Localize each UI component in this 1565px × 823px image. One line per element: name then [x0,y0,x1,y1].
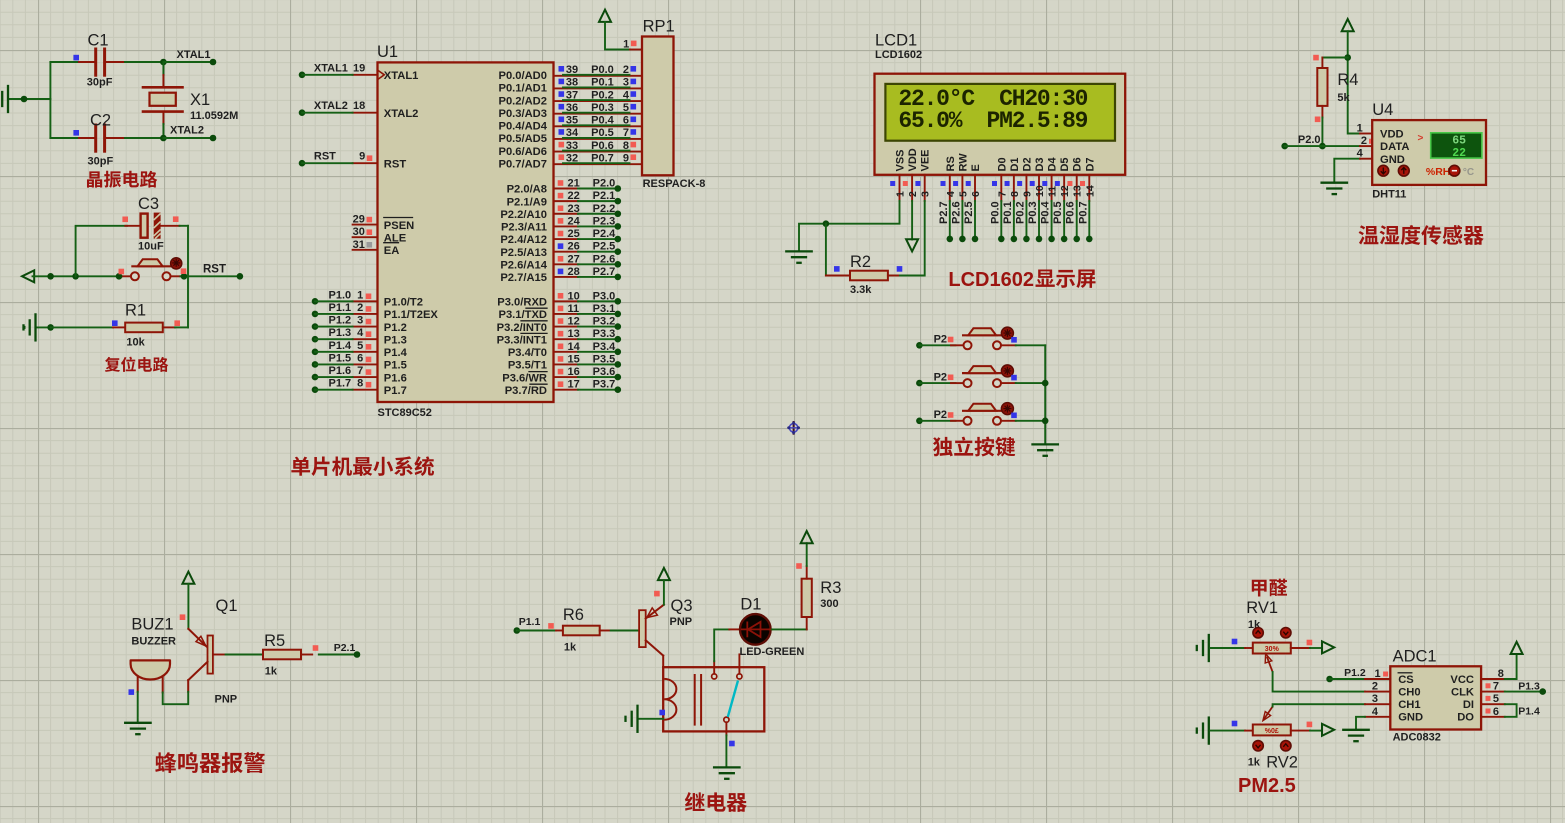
button actuator key 2 [1001,365,1013,377]
svg-text:D5: D5 [1059,157,1071,171]
state square BUZ1 [129,689,135,695]
wire XTAL1 to U1 [299,72,306,79]
DHT11 buttons [1378,165,1389,176]
svg-text:P1.3: P1.3 [1518,681,1540,693]
svg-text:P0.7/AD7: P0.7/AD7 [498,158,547,170]
svg-text:%RH: %RH [1426,166,1451,178]
svg-text:XTAL2: XTAL2 [170,125,204,137]
svg-text:P1.6: P1.6 [384,372,407,384]
power arrow (reset rail, pointing left) [22,270,34,282]
state square LCD pin 10 [1030,181,1035,186]
svg-text:P3.4/T0: P3.4/T0 [508,347,547,359]
wire P0.4 to RP1 [563,124,630,126]
svg-text:R2: R2 [850,253,871,271]
LCD pin 2 stub [911,175,913,201]
svg-text:STC89C52: STC89C52 [378,407,432,419]
wire P3.6 [578,376,618,378]
state square key 3 right [1011,413,1017,419]
svg-text:P1.6: P1.6 [329,365,352,377]
wire P1.5 [312,361,319,368]
state square ADC pin 1 [1383,672,1388,677]
state square RV2 right [1307,722,1313,728]
node P2.2 key terminal [916,342,923,349]
potentiometer RV1 [1245,647,1253,649]
svg-text:P0.5: P0.5 [1052,201,1064,224]
resistor R1 [51,326,113,328]
wire P2.3 [578,225,618,227]
pin 14 P3.4 (U1 right) [554,351,579,353]
wire VDD to power [911,201,913,240]
svg-text:19: 19 [353,62,365,74]
LCD pin 6 stub [974,175,976,201]
svg-text:P0.6/AD6: P0.6/AD6 [498,146,547,158]
svg-text:P3.5: P3.5 [593,353,616,365]
state squares P0.6 [559,142,565,148]
state square RV1 right [1307,640,1313,646]
svg-text:5: 5 [357,340,363,352]
svg-text:RST: RST [314,151,336,163]
LCD pin 3 stub [924,175,926,201]
pin 6 DO (ADC) [1481,716,1505,718]
power arrow right (RV1) [1322,641,1334,653]
svg-text:RV2: RV2 [1266,754,1298,772]
LCD pin 9 stub [1025,175,1027,201]
LCD pin 7 stub [1000,175,1002,201]
svg-text:PSEN: PSEN [384,220,414,232]
wire P0.5 to RP1 [563,137,630,139]
state square DATA pin 2 [1369,139,1374,144]
svg-text:P0.3: P0.3 [1027,201,1039,224]
svg-text:4: 4 [945,191,957,197]
svg-text:30pF: 30pF [88,156,114,168]
svg-text:ADC0832: ADC0832 [1393,732,1441,744]
pin 8 P1.7 (U1 left) [353,389,378,391]
svg-text:P2.0: P2.0 [593,178,616,190]
state square RV1 left [1232,639,1238,645]
svg-text:P1.4: P1.4 [1518,706,1540,718]
svg-text:P3.2: P3.2 [593,316,616,328]
svg-text:23: 23 [568,203,580,215]
state square P1.2 [366,319,372,325]
title reset circuit [105,357,120,372]
wire buzzer left to ground [137,692,139,723]
svg-text:9: 9 [1021,191,1033,197]
button actuator key 1 [1001,327,1013,339]
svg-text:P3.2/INT0: P3.2/INT0 [497,322,547,334]
pin 1 P1.0 (U1 left) [353,300,378,302]
svg-text:30%: 30% [1265,646,1280,653]
node P2.4 key terminal [916,418,923,425]
svg-text:P1.1/T2EX: P1.1/T2EX [384,309,439,321]
junction dot VSS/R2 [823,220,830,227]
potentiometer RV2 [1245,730,1253,732]
wire P3.1 [578,313,618,315]
state square LCD pin 14 [1080,181,1085,186]
svg-text:P2.1: P2.1 [334,642,356,654]
svg-text:27: 27 [568,253,580,265]
pin 27 P2.6 (U1 right) [554,263,579,265]
title buzzer alarm [155,752,176,773]
svg-text:1k: 1k [265,665,278,677]
svg-text:4: 4 [623,89,630,101]
pin 7 P1.6 (U1 left) [353,376,378,378]
state square RST pin 9 [367,155,373,161]
state squares R2 [834,266,840,272]
pin 6 P1.5 (U1 left) [353,363,378,365]
clock input mark XTAL1 [378,70,385,80]
sensor U4 DHT11 body [1372,120,1486,185]
svg-text:XTAL1: XTAL1 [384,70,419,82]
svg-text:P0.1/AD1: P0.1/AD1 [498,83,547,95]
svg-text:LCD1602: LCD1602 [948,269,1034,291]
state square C2 [73,130,79,136]
svg-text:P2.1/A9: P2.1/A9 [507,196,547,208]
svg-text:P2.0/A8: P2.0/A8 [507,184,547,196]
svg-text:10uF: 10uF [138,241,164,253]
svg-text:BUZ1: BUZ1 [131,616,173,634]
state square P3.0 [558,293,564,299]
state square Q1 emitter [180,614,186,620]
svg-text:BUZZER: BUZZER [131,636,176,648]
state square LCD pin 3 [915,181,920,186]
svg-text:P2.0: P2.0 [1298,134,1321,146]
svg-text:D7: D7 [1084,157,1096,171]
svg-text:3: 3 [357,315,363,327]
MCU U1 body [378,62,554,402]
ground (crystal circuit) [9,98,50,100]
svg-text:P0.6: P0.6 [591,140,614,152]
overline TXD INT0 INT1 WR RD [526,307,547,309]
LCD pin 8 stub [1013,175,1015,201]
svg-text:P3.0/RXD: P3.0/RXD [497,297,547,309]
wire DATA to U4 [1322,145,1360,147]
state square LCD pin 5 [953,181,958,186]
state square LCD pin 11 [1042,181,1047,186]
state square P2.2 [558,205,564,211]
svg-text:VDD: VDD [1380,129,1404,141]
svg-text:1: 1 [895,191,907,197]
LCD pin 4 stub [949,175,951,201]
LCD pin 12 stub [1063,175,1065,201]
LCD pin 1 stub [899,175,901,201]
svg-text:2: 2 [1372,681,1378,693]
button actuator key 3 [1001,403,1013,415]
svg-text:8: 8 [1009,191,1021,197]
junction dot R1 left [47,324,54,331]
svg-text:P0.2: P0.2 [1014,201,1026,224]
svg-text:%0£: %0£ [1265,728,1279,735]
svg-text:XTAL2: XTAL2 [384,108,419,120]
buzzer BUZ1 [131,660,170,679]
title relay [685,792,705,811]
svg-text:P2: P2 [934,371,947,383]
pin 38 P0.1 (U1 right) [554,87,643,89]
wire left rail C1-C2 [49,62,51,138]
wire power to Q3 emitter [663,580,665,605]
svg-text:P2.1: P2.1 [593,190,616,202]
svg-text:34: 34 [566,127,579,139]
svg-text:P1.4: P1.4 [384,347,408,359]
title formaldehyde [1252,580,1267,597]
resistor R6 [556,630,563,632]
pin 5 DI (ADC) [1481,703,1505,705]
wire P0.7 to RP1 [563,162,630,164]
svg-text:VCC: VCC [1450,674,1474,686]
wire RV1 to output arrow [1310,647,1322,649]
state square pin 31 [367,242,373,248]
svg-text:P3.0: P3.0 [593,290,616,302]
node XTAL2 (net label + wire + dots) [160,135,167,142]
state square P3.4 [558,344,564,350]
resistor R2 [825,224,827,276]
svg-text:32: 32 [566,152,578,164]
wire power to R4/VDD [1347,31,1349,57]
power arrow (RP1 pin 1) [599,10,611,22]
svg-text:39: 39 [566,64,578,76]
wire keys ground rail [1044,345,1046,444]
svg-text:D4: D4 [1047,157,1059,172]
state square R6 left [548,623,554,629]
state square ADC pin 5 [1486,696,1491,701]
pin 2 P1.1 (U1 left) [353,313,378,315]
wire CH1 [1273,704,1365,706]
svg-text:8: 8 [1498,668,1504,680]
svg-text:P0.0: P0.0 [591,64,614,76]
svg-text:25: 25 [568,228,580,240]
relay contact pins [712,674,717,679]
svg-text:3: 3 [920,191,932,197]
pin 17 P3.7 (U1 right) [554,389,579,391]
wire VSS to ground [799,201,900,251]
svg-text:XTAL1: XTAL1 [177,49,211,61]
junction dots keys rail [1042,380,1049,387]
svg-text:P0.6: P0.6 [1065,201,1077,224]
state squares P0.5 [559,129,565,135]
state square ADC pin 7 [1486,683,1491,688]
svg-text:30pF: 30pF [87,77,113,89]
svg-text:1: 1 [1357,123,1363,135]
svg-text:7: 7 [357,365,363,377]
svg-text:P0.5: P0.5 [591,127,614,139]
state squares P0.2 [559,91,565,97]
svg-text:1: 1 [1374,668,1380,680]
svg-text:7: 7 [996,191,1008,197]
svg-text:R3: R3 [820,579,841,597]
pin 33 P0.6 (U1 right) [554,151,643,153]
state squares P0.7 [559,154,565,160]
svg-text:8: 8 [357,378,363,390]
svg-text:P3.3: P3.3 [593,328,616,340]
capacitor C3 (electrolytic) [125,225,139,227]
state square P1.4 [366,344,372,350]
wire ground to RV1 [1210,647,1245,649]
wire RST to U1 [299,160,306,167]
svg-text:4: 4 [1372,706,1379,718]
state square RV2 left [1232,721,1238,727]
wire P1.0 [312,298,319,305]
state squares P0.0 [559,66,565,72]
state squares P0.1 [559,79,565,85]
svg-text:P1.5: P1.5 [329,352,352,364]
pin 29 (U1 left, no wire) [353,224,378,226]
svg-text:10k: 10k [126,337,145,349]
wire key 2 to ground rail [1016,382,1045,384]
wire D1 to R3 [772,628,807,630]
pin 31 (U1 left, no wire) [353,249,378,251]
svg-text:ADC1: ADC1 [1393,648,1437,666]
state square C1 [73,55,79,61]
state square key 1 right [1011,337,1017,343]
state square LCD pin 4 [941,181,946,186]
power arrow (ADC VCC) [1511,642,1523,654]
wire R4 to DATA [1321,118,1323,147]
pin 5 P1.4 (U1 left) [353,351,378,353]
LCD screen [885,84,1115,141]
wire R5 to P2.1 [319,654,357,656]
svg-text:9: 9 [623,152,629,164]
push button (reset key) [131,272,139,280]
svg-text:VSS: VSS [895,149,907,171]
svg-text:14: 14 [568,341,581,353]
svg-text:P0.7: P0.7 [591,152,614,164]
svg-text:VEE: VEE [920,149,932,171]
svg-text:P1.2: P1.2 [384,322,407,334]
svg-text:18: 18 [353,100,365,112]
svg-text:U1: U1 [377,43,398,61]
relay coil [664,679,676,720]
node P2.0 terminal [1281,143,1288,150]
wire P3.2 [578,326,618,328]
state square P2.0 [558,180,564,186]
svg-text:D1: D1 [1009,157,1021,171]
svg-text:31: 31 [353,239,365,251]
LCD pin 5 stub [961,175,963,201]
state square R5 right [313,645,319,651]
power arrow down (VDD) [906,239,918,251]
wire P1.1 [312,311,319,318]
state square P3.1 [558,306,564,312]
overline PSEN [384,217,413,219]
svg-text:P2.5: P2.5 [963,201,975,224]
svg-text:5k: 5k [1337,92,1350,104]
resistor R5 [263,650,301,660]
junction dot power/R4 [1344,54,1351,61]
wire power to RP1 pin 1 [605,22,630,50]
ground (relay switch) [714,766,739,768]
svg-text:P0.1: P0.1 [591,77,614,89]
svg-text:17: 17 [568,379,580,391]
svg-text:XTAL2: XTAL2 [314,100,348,112]
svg-text:12: 12 [1059,185,1071,197]
state square P2.1 [558,193,564,199]
wire C3 right branch / RST vertical [187,226,189,328]
wire P3.5 [578,363,618,365]
wire R4 top [1322,57,1347,59]
button actuator (reset key) [171,258,182,269]
svg-text:R1: R1 [125,302,146,320]
power arrow (buzzer) [182,572,194,584]
svg-text:C1: C1 [88,32,109,50]
svg-text:4: 4 [1357,148,1364,160]
svg-text:CLK: CLK [1451,686,1474,698]
svg-text:30: 30 [353,226,365,238]
pin 28 P2.7 (U1 right) [554,276,579,278]
pin 19 XTAL1 (U1 left) [353,74,378,76]
wire P2.1 [578,200,618,202]
wire relay common to ground [725,722,727,735]
wire XTAL2 to U1 [299,109,306,116]
wire DI-DO bracket (P1.4) [1505,704,1517,717]
state square P3.7 [558,381,564,387]
svg-text:P1.2: P1.2 [329,315,352,327]
state square P1.6 [366,369,372,375]
svg-text:5: 5 [957,191,969,197]
svg-text:CH0: CH0 [1398,686,1420,698]
wire P3.7 [578,389,618,391]
state square R4 top [1313,55,1319,61]
svg-text:13: 13 [568,328,580,340]
svg-text:P1.4: P1.4 [329,340,353,352]
wire D0 (P0.0) [1000,201,1002,239]
pin 1 CS (ADC) [1365,678,1390,680]
ground (DHT11) [1322,182,1347,184]
svg-text:P1.0: P1.0 [329,289,352,301]
wire power to Q1 emitter [187,584,189,629]
wire key 1 to ground rail [1016,344,1045,346]
svg-text:P2.2/A10: P2.2/A10 [500,209,547,221]
svg-text:GND: GND [1398,712,1423,724]
svg-text:5: 5 [1493,693,1499,705]
svg-text:28: 28 [568,266,580,278]
svg-text:P2.7: P2.7 [938,201,950,224]
wire CLK to P1.3 [1505,691,1543,693]
pin 23 P2.2 (U1 right) [554,213,579,215]
svg-text:P3.1/TXD: P3.1/TXD [499,309,548,321]
state square P2.6 [558,256,564,262]
pin 7 CLK (ADC) [1481,691,1505,693]
pin 32 P0.7 (U1 right) [554,163,643,165]
svg-text:P0.3/AD3: P0.3/AD3 [498,108,547,120]
svg-text:DO: DO [1457,712,1474,724]
svg-text:P2.5: P2.5 [593,241,616,253]
pin 8 VCC (ADC) [1481,678,1505,680]
state square P1.3 [366,331,372,337]
svg-text:RST: RST [203,264,226,276]
pin 16 P3.6 (U1 right) [554,376,579,378]
pin 37 P0.2 (U1 right) [554,100,643,102]
svg-text:P0.2: P0.2 [591,89,614,101]
power arrow (Q3 emitter) [658,568,670,580]
wire P1.6 [312,374,319,381]
svg-text:RS: RS [945,156,957,171]
LED D1 (LED-GREEN) [729,628,741,630]
wire P1.3 [312,336,319,343]
capacitor C2 [50,137,79,139]
wire RS (P2.7) [949,201,951,239]
svg-text:P0.2/AD2: P0.2/AD2 [498,95,547,107]
LCD pin 10 stub [1038,175,1040,201]
resistor R3 [806,617,808,629]
svg-text:P0.4: P0.4 [591,115,615,127]
state square R3 top [796,563,802,569]
svg-text:12: 12 [568,316,580,328]
wire P0.1 to RP1 [563,86,630,88]
svg-text:3.3k: 3.3k [850,284,872,296]
state square RP1 pin 1 [631,41,637,47]
svg-text:P3.7/RD: P3.7/RD [505,385,547,397]
svg-text:XTAL1: XTAL1 [314,62,348,74]
svg-text:P1.3: P1.3 [384,334,407,346]
